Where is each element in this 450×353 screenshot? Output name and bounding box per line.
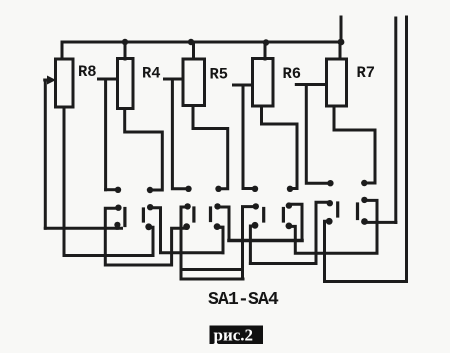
node SA3 pole bottom contact	[252, 222, 259, 229]
wire R8 bottom horizontal to x153	[64, 254, 153, 257]
node SA2 right top contact	[214, 203, 220, 209]
wire R8 wiper vertical down	[44, 80, 47, 228]
wire long right vertical 1	[394, 18, 397, 223]
node SA4 right top contact	[361, 197, 367, 203]
wire R5 top lead	[192, 42, 195, 59]
node SA2 pole bottom contact	[183, 223, 190, 230]
node SA3 upper-left contact	[252, 186, 258, 192]
wire R7 top lead	[339, 42, 342, 59]
node bus junction R4	[122, 39, 128, 45]
wire R5 tap vertical down	[172, 79, 188, 189]
wire R6 top lead	[264, 43, 267, 60]
svg-text:R8: R8	[78, 63, 97, 81]
resistor R6 body	[253, 59, 274, 107]
label figure caption box	[210, 326, 264, 345]
node SA4 pole bottom contact	[326, 218, 333, 225]
node SA3 upper-right contact	[287, 186, 293, 192]
wire R8 wiper to SA1 lower contact (horizontal y=228)	[45, 227, 121, 230]
wire foot to SA1 upper-left contact	[106, 188, 118, 191]
switch SA3 moving bar a	[262, 209, 265, 222]
switch SA2 moving bar b	[209, 208, 212, 221]
wire R4 tap vertical down	[104, 79, 107, 190]
node SA3 right top contact	[286, 202, 292, 208]
switch SA2 right column: top contact elbow down to SA3 chain	[218, 207, 230, 241]
svg-text:SA1-SA4: SA1-SA4	[208, 290, 279, 310]
node SA1 upper-left contact	[115, 187, 121, 193]
wire SA2-SA3 chain horizontal	[229, 239, 302, 243]
wire ladder upper horizontal	[181, 268, 243, 271]
svg-text:R7: R7	[357, 64, 376, 82]
wire R8 bottom lead down	[63, 107, 66, 256]
switch SA2 right bottom contact elbow down	[217, 227, 223, 253]
resistor R7 body	[327, 59, 347, 106]
wire R6 bottom lead	[262, 106, 298, 189]
switch SA4 moving bar b	[356, 204, 359, 219]
wire R8 wiper arrow line	[45, 79, 50, 82]
wire R4 top lead	[124, 42, 127, 59]
switch SA1 bottom contact tick	[116, 225, 119, 229]
R8 wiper arrowhead	[47, 76, 56, 85]
node SA4 upper-right contact	[361, 180, 367, 186]
wire vertical up from bus right end	[340, 17, 343, 42]
switch SA1 moving bar b	[142, 209, 145, 221]
node SA4 upper-left contact	[327, 180, 333, 186]
switch SA4 left-top contact elbow down to SA3 chain	[250, 202, 330, 263]
node SA1 right top contact	[147, 204, 153, 210]
wire SA3 left-top contact vertical	[243, 207, 256, 279]
wire up to SA1 right-bottom contact	[149, 227, 154, 255]
switch SA1 lower pole left: top contact wire down to chain	[105, 208, 187, 265]
resistor R5 body	[183, 59, 205, 106]
switch SA3 right bottom contact elbow down to SA4 chain	[289, 200, 377, 253]
switch SA2 left column: top contact elbow and ladder wires	[181, 207, 243, 279]
node SA3 pole top contact	[253, 203, 259, 209]
wire R7 bottom lead	[334, 106, 375, 183]
node SA4 pole top contact	[327, 200, 333, 206]
node SA1 right bottom contact	[145, 223, 152, 230]
node bus junction R7	[338, 39, 345, 46]
node SA4 right bottom contact	[361, 218, 368, 225]
node SA1 pole top contact	[115, 205, 121, 211]
switch SA4 right bottom contact to right vertical	[365, 221, 396, 224]
wire long right vertical 2	[325, 17, 407, 282]
switch SA4 moving bar a	[336, 203, 339, 216]
switch SA1 right column: top contact elbow down	[150, 208, 223, 253]
wire R7 tap horizontal	[296, 83, 326, 86]
node SA1 pole bottom contact	[114, 222, 120, 228]
switch SA4 left-bottom contact elbow down	[325, 221, 330, 281]
node bus junction R5	[188, 39, 194, 45]
node SA2 upper-left contact	[185, 186, 191, 192]
svg-text:рис.2: рис.2	[214, 326, 254, 345]
wire R5 bottom lead	[193, 106, 228, 189]
svg-text:R6: R6	[283, 65, 302, 83]
wire top supply bus	[62, 42, 341, 59]
wire R6 tap horizontal	[234, 84, 253, 87]
node SA2 right bottom contact	[214, 223, 221, 230]
svg-text:R5: R5	[210, 66, 229, 84]
svg-text:R4: R4	[142, 65, 161, 83]
switch SA3 bottom-left contact elbow down	[250, 226, 255, 264]
switch SA3 moving bar b	[282, 209, 285, 222]
wire R6 tap vertical down	[243, 85, 255, 189]
switch SA1 moving bar a	[123, 209, 126, 226]
wire R5 tap horizontal	[165, 78, 184, 81]
wire R4 bottom lead	[125, 109, 163, 191]
wire R7 tap vertical down to SA4 upper-left contact	[306, 85, 330, 184]
node SA1 upper-right contact	[147, 187, 153, 193]
resistor R4 body	[118, 59, 134, 109]
switch SA2 moving bar a	[192, 208, 195, 221]
wire up to SA3 right top contact	[289, 204, 302, 240]
node bus junction R6	[263, 39, 269, 45]
resistor R8 (potentiometer body)	[56, 59, 74, 107]
node SA2 upper-right contact	[215, 186, 221, 192]
node SA2 pole top contact	[184, 203, 190, 209]
wire R4 tap horizontal	[99, 78, 118, 81]
node SA3 right bottom contact	[286, 223, 293, 230]
